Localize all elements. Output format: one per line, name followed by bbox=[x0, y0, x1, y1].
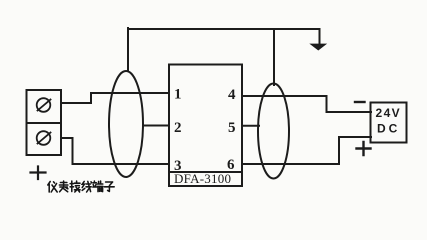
char 端 bbox=[93, 181, 103, 192]
screw terminal bottom bbox=[37, 131, 51, 145]
char 接 bbox=[70, 181, 80, 192]
shield ellipse left bbox=[109, 71, 143, 177]
shield ellipse right bbox=[258, 84, 289, 179]
wire 2: left shield to pin 2 bbox=[143, 125, 168, 127]
screw terminal top bbox=[37, 98, 51, 112]
ground arrow bbox=[319, 29, 321, 44]
DFA-3100 box bbox=[169, 65, 242, 187]
svg-text:24V: 24V bbox=[376, 106, 402, 120]
svg-text:DC: DC bbox=[377, 122, 400, 136]
wire 6: pin 6 to 24V plus bbox=[242, 137, 371, 164]
24V DC supply box bbox=[371, 103, 407, 143]
svg-text:DFA-3100: DFA-3100 bbox=[174, 171, 231, 186]
terminal block divider bbox=[27, 122, 62, 124]
wire 4: pin 4 to 24V minus bbox=[242, 96, 371, 112]
char 子 bbox=[104, 182, 114, 191]
minus polarity mark bbox=[355, 101, 365, 103]
svg-text:2: 2 bbox=[174, 120, 182, 136]
plus polarity mark bbox=[357, 142, 371, 155]
char 表 bbox=[59, 181, 68, 192]
svg-text:1: 1 bbox=[174, 87, 182, 103]
wire 1: terminal to pin 1 bbox=[61, 93, 168, 103]
terminal block bbox=[27, 90, 62, 155]
char 仪 bbox=[48, 182, 57, 193]
ground arrowhead bbox=[311, 44, 327, 50]
label 仪表接线端子 (instrument wiring terminals), drawn strokes bbox=[48, 181, 114, 192]
svg-text:4: 4 bbox=[228, 87, 236, 103]
char 线 bbox=[82, 181, 91, 192]
wire 5: pin 5 to right shield bbox=[242, 125, 259, 127]
wire right shield drop bbox=[273, 29, 275, 85]
wire 3: terminal to pin 3 bbox=[61, 138, 168, 164]
DFA-3100 footer line bbox=[169, 171, 242, 173]
wire left shield drop bbox=[127, 28, 129, 71]
wire top shield bus bbox=[128, 28, 320, 30]
plus mark (earth terminal label) bbox=[31, 167, 46, 180]
svg-text:5: 5 bbox=[228, 120, 236, 136]
